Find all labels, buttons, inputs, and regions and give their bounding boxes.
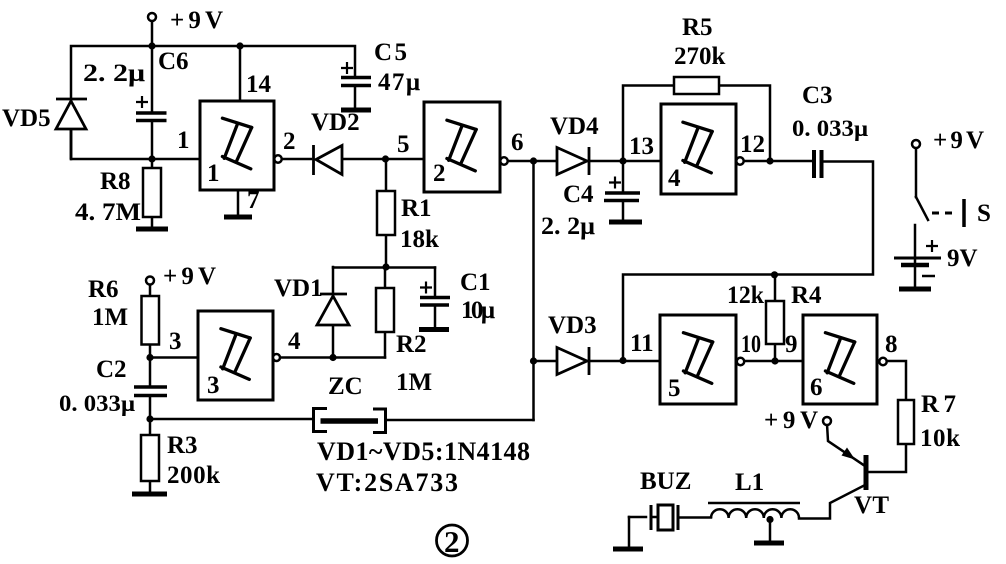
svg-text:5: 5 [397,131,410,158]
svg-text:VD2: VD2 [311,109,360,136]
svg-text:5: 5 [668,375,681,402]
svg-text:3: 3 [169,328,182,355]
svg-text:VD5: VD5 [2,105,51,132]
svg-text:9V: 9V [947,245,978,272]
svg-text:C1: C1 [460,269,491,296]
svg-text:2: 2 [444,524,460,559]
svg-text:1: 1 [177,127,190,154]
svg-text:4. 7M: 4. 7M [75,199,141,226]
svg-text:C2: C2 [96,356,127,383]
svg-text:VT: VT [854,492,889,519]
svg-text:14: 14 [246,71,272,98]
svg-text:+9V: +9V [163,263,216,290]
svg-text:R8: R8 [100,168,131,195]
svg-text:4: 4 [288,328,301,355]
svg-text:VD1: VD1 [274,275,323,302]
svg-text:13: 13 [629,133,654,160]
svg-text:R3: R3 [167,432,198,459]
svg-text:C3: C3 [802,82,833,109]
svg-text:200k: 200k [167,462,220,489]
svg-text:18k: 18k [400,226,439,253]
svg-text:2: 2 [283,128,296,155]
svg-text:10: 10 [741,331,761,358]
svg-text:C4: C4 [563,181,594,208]
svg-text:BUZ: BUZ [640,468,691,495]
svg-text:VT:2SA733: VT:2SA733 [316,468,458,497]
svg-text:VD3: VD3 [548,312,597,339]
svg-text:0. 033μ: 0. 033μ [792,116,868,141]
svg-text:47μ: 47μ [378,69,420,96]
svg-text:S: S [977,200,991,227]
svg-text:VD4: VD4 [550,113,599,140]
svg-text:C5: C5 [374,39,407,66]
svg-text:6: 6 [810,374,823,401]
svg-text:10μ: 10μ [461,297,495,324]
svg-text:+9V: +9V [170,7,223,34]
svg-text:1M: 1M [396,369,432,396]
svg-text:3: 3 [207,372,220,399]
svg-text:R7: R7 [921,391,956,418]
svg-text:2: 2 [433,160,446,187]
svg-text:C6: C6 [158,48,189,75]
svg-text:L1: L1 [735,469,764,496]
svg-text:+9V: +9V [933,127,984,154]
svg-text:12: 12 [740,131,765,158]
svg-text:4: 4 [668,165,681,192]
svg-text:6: 6 [511,129,524,156]
svg-text:R1: R1 [401,195,432,222]
svg-text:0. 033μ: 0. 033μ [59,391,135,416]
svg-text:ZC: ZC [328,373,363,400]
svg-text:R4: R4 [791,282,822,309]
svg-text:9: 9 [785,331,798,358]
svg-text:8: 8 [885,331,898,358]
svg-text:1M: 1M [92,304,128,331]
svg-text:270k: 270k [674,43,726,70]
svg-text:R6: R6 [88,276,119,303]
svg-text:7: 7 [247,187,260,214]
svg-text:2. 2μ: 2. 2μ [541,213,595,240]
svg-text:VD1~VD5:1N4148: VD1~VD5:1N4148 [317,437,530,466]
svg-text:R2: R2 [396,331,427,358]
svg-text:12k: 12k [727,282,764,309]
svg-text:1: 1 [207,160,220,187]
svg-text:2. 2μ: 2. 2μ [83,60,145,87]
svg-text:10k: 10k [920,425,960,452]
svg-text:11: 11 [630,330,654,357]
svg-text:+9V: +9V [764,407,818,434]
svg-text:R5: R5 [682,14,713,41]
